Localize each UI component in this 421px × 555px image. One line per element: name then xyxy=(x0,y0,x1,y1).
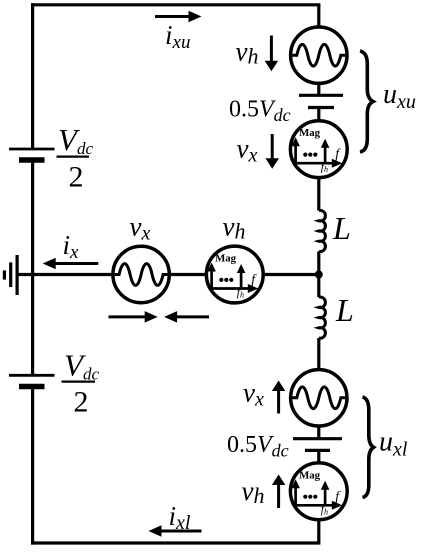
svg-text:vh: vh xyxy=(223,211,246,243)
svg-text:L: L xyxy=(332,210,351,246)
wire capacitor to source vx upper xyxy=(317,108,320,122)
arrow down vx upper xyxy=(265,134,279,169)
AC source vx middle xyxy=(113,246,169,302)
capacitor upper 0.5Vdc short plate xyxy=(308,106,334,109)
label vh lower arm xyxy=(242,476,265,508)
capacitor upper 0.5Vdc long plate xyxy=(299,94,343,97)
svg-text:f: f xyxy=(335,489,341,504)
label i_xl xyxy=(169,501,191,534)
AC source vh upper arm xyxy=(291,27,347,83)
label vx upper arm xyxy=(237,134,258,167)
arrow up vx lower xyxy=(272,381,286,414)
label ix xyxy=(63,230,80,263)
wire source vh to capacitor upper xyxy=(317,83,320,95)
svg-text:L: L xyxy=(335,292,354,328)
svg-text:Mag: Mag xyxy=(215,253,237,265)
svg-text:Vdc: Vdc xyxy=(64,347,99,383)
wire ground to source vx middle xyxy=(17,273,113,276)
svg-text:vx: vx xyxy=(243,378,264,411)
svg-text:Vdc: Vdc xyxy=(58,122,93,158)
svg-text:vx: vx xyxy=(130,211,151,244)
svg-text:f: f xyxy=(335,147,341,162)
wire source vx lower to capacitor xyxy=(317,426,320,439)
label u_xl xyxy=(379,427,408,461)
inductor L1 coil xyxy=(319,210,326,251)
svg-text:vx: vx xyxy=(237,134,258,167)
svg-text:Mag: Mag xyxy=(299,127,321,139)
battery B1 upper Vdc/2 short thick plate xyxy=(19,157,45,163)
ground symbol xyxy=(4,255,17,295)
wire inductor lower to source vx lower xyxy=(317,338,320,370)
svg-text:vh: vh xyxy=(236,36,259,68)
svg-text:2: 2 xyxy=(74,386,89,419)
svg-text:uxl: uxl xyxy=(379,427,408,461)
label vh middle xyxy=(223,211,246,243)
wire left rail upper segment xyxy=(31,3,34,149)
brace upper arm xyxy=(360,51,373,152)
svg-text:uxu: uxu xyxy=(383,79,416,113)
wire bottom horizontal xyxy=(31,541,320,544)
brace lower arm xyxy=(363,397,374,498)
wire capacitor lower to source vh lower xyxy=(317,450,320,463)
arrow right under vx middle xyxy=(109,311,158,323)
svg-text:f: f xyxy=(251,273,257,288)
harmonic source vh middle xyxy=(206,246,263,303)
wire right rail top segment xyxy=(317,5,320,27)
wire top horizontal xyxy=(31,3,320,6)
label vx middle xyxy=(130,211,151,244)
label i_xu xyxy=(165,20,190,53)
wire left rail lower segment xyxy=(31,387,34,545)
wire source vh middle to junction xyxy=(263,273,319,276)
arrow i_xu pointing right xyxy=(155,11,202,23)
label L lower xyxy=(335,292,354,328)
label vx lower arm xyxy=(243,378,264,411)
harmonic source vh lower arm xyxy=(290,463,347,520)
arrow up vh lower xyxy=(272,475,286,509)
arrow left under vh middle xyxy=(164,311,209,323)
wire source vx to source vh middle xyxy=(169,273,206,276)
svg-text:ix: ix xyxy=(63,230,80,263)
wire left rail middle segment xyxy=(31,160,34,375)
AC source vx lower arm xyxy=(291,370,347,426)
svg-text:vh: vh xyxy=(242,476,265,508)
capacitor lower 0.5Vdc long plate xyxy=(293,437,342,440)
label Vdc/2 lower xyxy=(62,347,100,418)
inductor L2 coil xyxy=(319,297,326,338)
battery B2 lower Vdc/2 short thick plate xyxy=(19,384,45,390)
label u_xu xyxy=(383,79,416,113)
battery B1 upper Vdc/2 long plate xyxy=(9,148,55,151)
capacitor lower 0.5Vdc short plate xyxy=(305,449,330,452)
svg-text:0.5Vdc: 0.5Vdc xyxy=(229,96,291,125)
label 0.5Vdc upper xyxy=(229,96,291,125)
wire source vx to inductor upper xyxy=(317,177,320,210)
label L upper xyxy=(332,210,351,246)
svg-text:0.5Vdc: 0.5Vdc xyxy=(227,432,289,461)
battery B2 lower Vdc/2 long plate xyxy=(9,374,55,377)
svg-text:Mag: Mag xyxy=(299,469,321,481)
svg-text:2: 2 xyxy=(69,161,84,194)
arrow i_xl pointing left xyxy=(149,525,202,537)
junction node dot xyxy=(315,271,323,279)
harmonic source vx upper arm xyxy=(290,121,347,178)
arrow down vh upper xyxy=(265,36,279,72)
arrow ix pointing left xyxy=(43,258,99,270)
wire source vh lower to bottom xyxy=(317,520,320,544)
wire inductor to junction xyxy=(317,251,320,297)
label vh upper arm xyxy=(236,36,259,68)
label 0.5Vdc lower xyxy=(227,432,289,461)
svg-text:ixl: ixl xyxy=(169,501,191,534)
svg-text:ixu: ixu xyxy=(165,20,190,53)
label Vdc/2 upper xyxy=(57,122,94,194)
